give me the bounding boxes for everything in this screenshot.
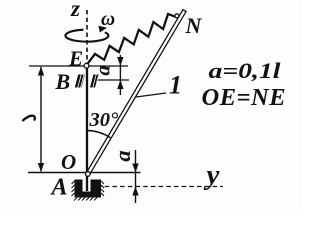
svg-text:N: N xyxy=(185,13,203,38)
svg-text:A: A xyxy=(50,174,68,200)
svg-text:ω: ω xyxy=(101,9,115,30)
svg-text:a: a xyxy=(90,65,114,76)
svg-text:30°: 30° xyxy=(89,109,120,131)
svg-text:a: a xyxy=(110,150,135,161)
svg-text:E: E xyxy=(68,47,83,71)
svg-text:O: O xyxy=(61,150,76,174)
svg-text:a=0,1l: a=0,1l xyxy=(209,59,281,83)
svg-text:z: z xyxy=(70,0,80,21)
svg-text:OE=NE: OE=NE xyxy=(202,84,287,111)
svg-text:B: B xyxy=(55,69,71,94)
svg-text:y: y xyxy=(204,159,220,191)
svg-text:1: 1 xyxy=(169,71,182,100)
